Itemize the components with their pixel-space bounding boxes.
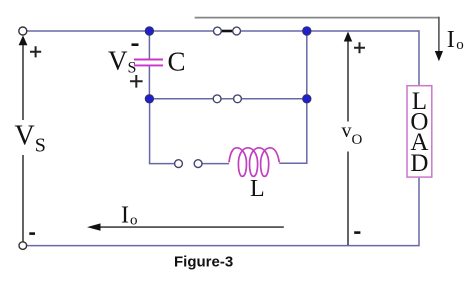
output current Io guide line (gray) with down arrow [195,17,443,62]
switch S3 open (inductor branch) right circle [194,160,202,168]
svg-text:D: D [410,150,428,177]
switch S1 left circle [214,27,222,35]
svg-text:Figure-3: Figure-3 [174,254,233,271]
output voltage vo measurement line lower [347,152,349,246]
switch S1 closed (top) contact bar [221,30,233,33]
svg-text:L: L [250,176,265,202]
return current Io arrow (bottom, pointing left) [87,223,284,230]
svg-text:C: C [168,47,186,77]
node top-left junction [145,27,153,35]
terminal top-left [19,27,27,35]
output current label Io (top right) [447,27,464,53]
wire capacitor branch upper (node to top plate) [148,31,150,59]
wire top horizontal from source + terminal to right corner [27,30,419,32]
wire inductor branch left (down from node and right to switch) [150,99,175,164]
wire capacitor branch lower (bottom plate to node) [148,66,150,99]
load box [407,86,432,177]
svg-text:Io: Io [121,203,138,229]
source Vs measurement line lower [22,155,24,242]
svg-text:Io: Io [447,27,464,53]
wire middle horizontal (between nodes through open switch) [149,98,306,100]
caption Figure-3 [174,254,233,271]
svg-text:VS: VS [15,121,46,157]
svg-text:VS: VS [108,45,136,76]
svg-text:vO: vO [342,120,363,148]
inductor designator L [250,176,265,202]
wire between lower switch and inductor [202,163,229,165]
source plus sign [30,46,41,57]
capacitor polarity minus label [132,43,139,46]
source Vs measurement line upper with up arrow [19,35,28,120]
capacitor voltage label Vs [108,45,136,76]
node middle-right junction [303,95,311,103]
switch S2 open (middle) right circle [234,95,242,103]
node top-right junction [303,27,311,35]
return current label Io (bottom) [121,203,138,229]
terminal bottom-left [19,242,27,250]
output voltage label vo [342,120,363,148]
capacitor C plates [134,60,163,66]
wire load bottom to bottom rail [418,177,420,246]
node middle-left junction [145,95,153,103]
wire right inner vertical (top node to inductor rail) [279,31,307,163]
wire bottom horizontal rail [27,245,420,247]
output plus sign [354,42,365,53]
switch S2 open (middle) left circle [213,95,221,103]
load label LOAD vertical [410,88,428,177]
switch S3 open (inductor branch) left circle [175,160,183,168]
switch S1 right circle [233,27,241,35]
capacitor designator C [168,47,186,77]
source label Vs [15,121,46,157]
capacitor polarity plus label [130,75,143,88]
output voltage vo measurement line upper with up arrow [344,32,352,122]
inductor L coil [229,148,279,177]
source minus sign [29,232,35,235]
wire right vertical down to load [418,30,420,85]
output minus sign [354,231,360,234]
